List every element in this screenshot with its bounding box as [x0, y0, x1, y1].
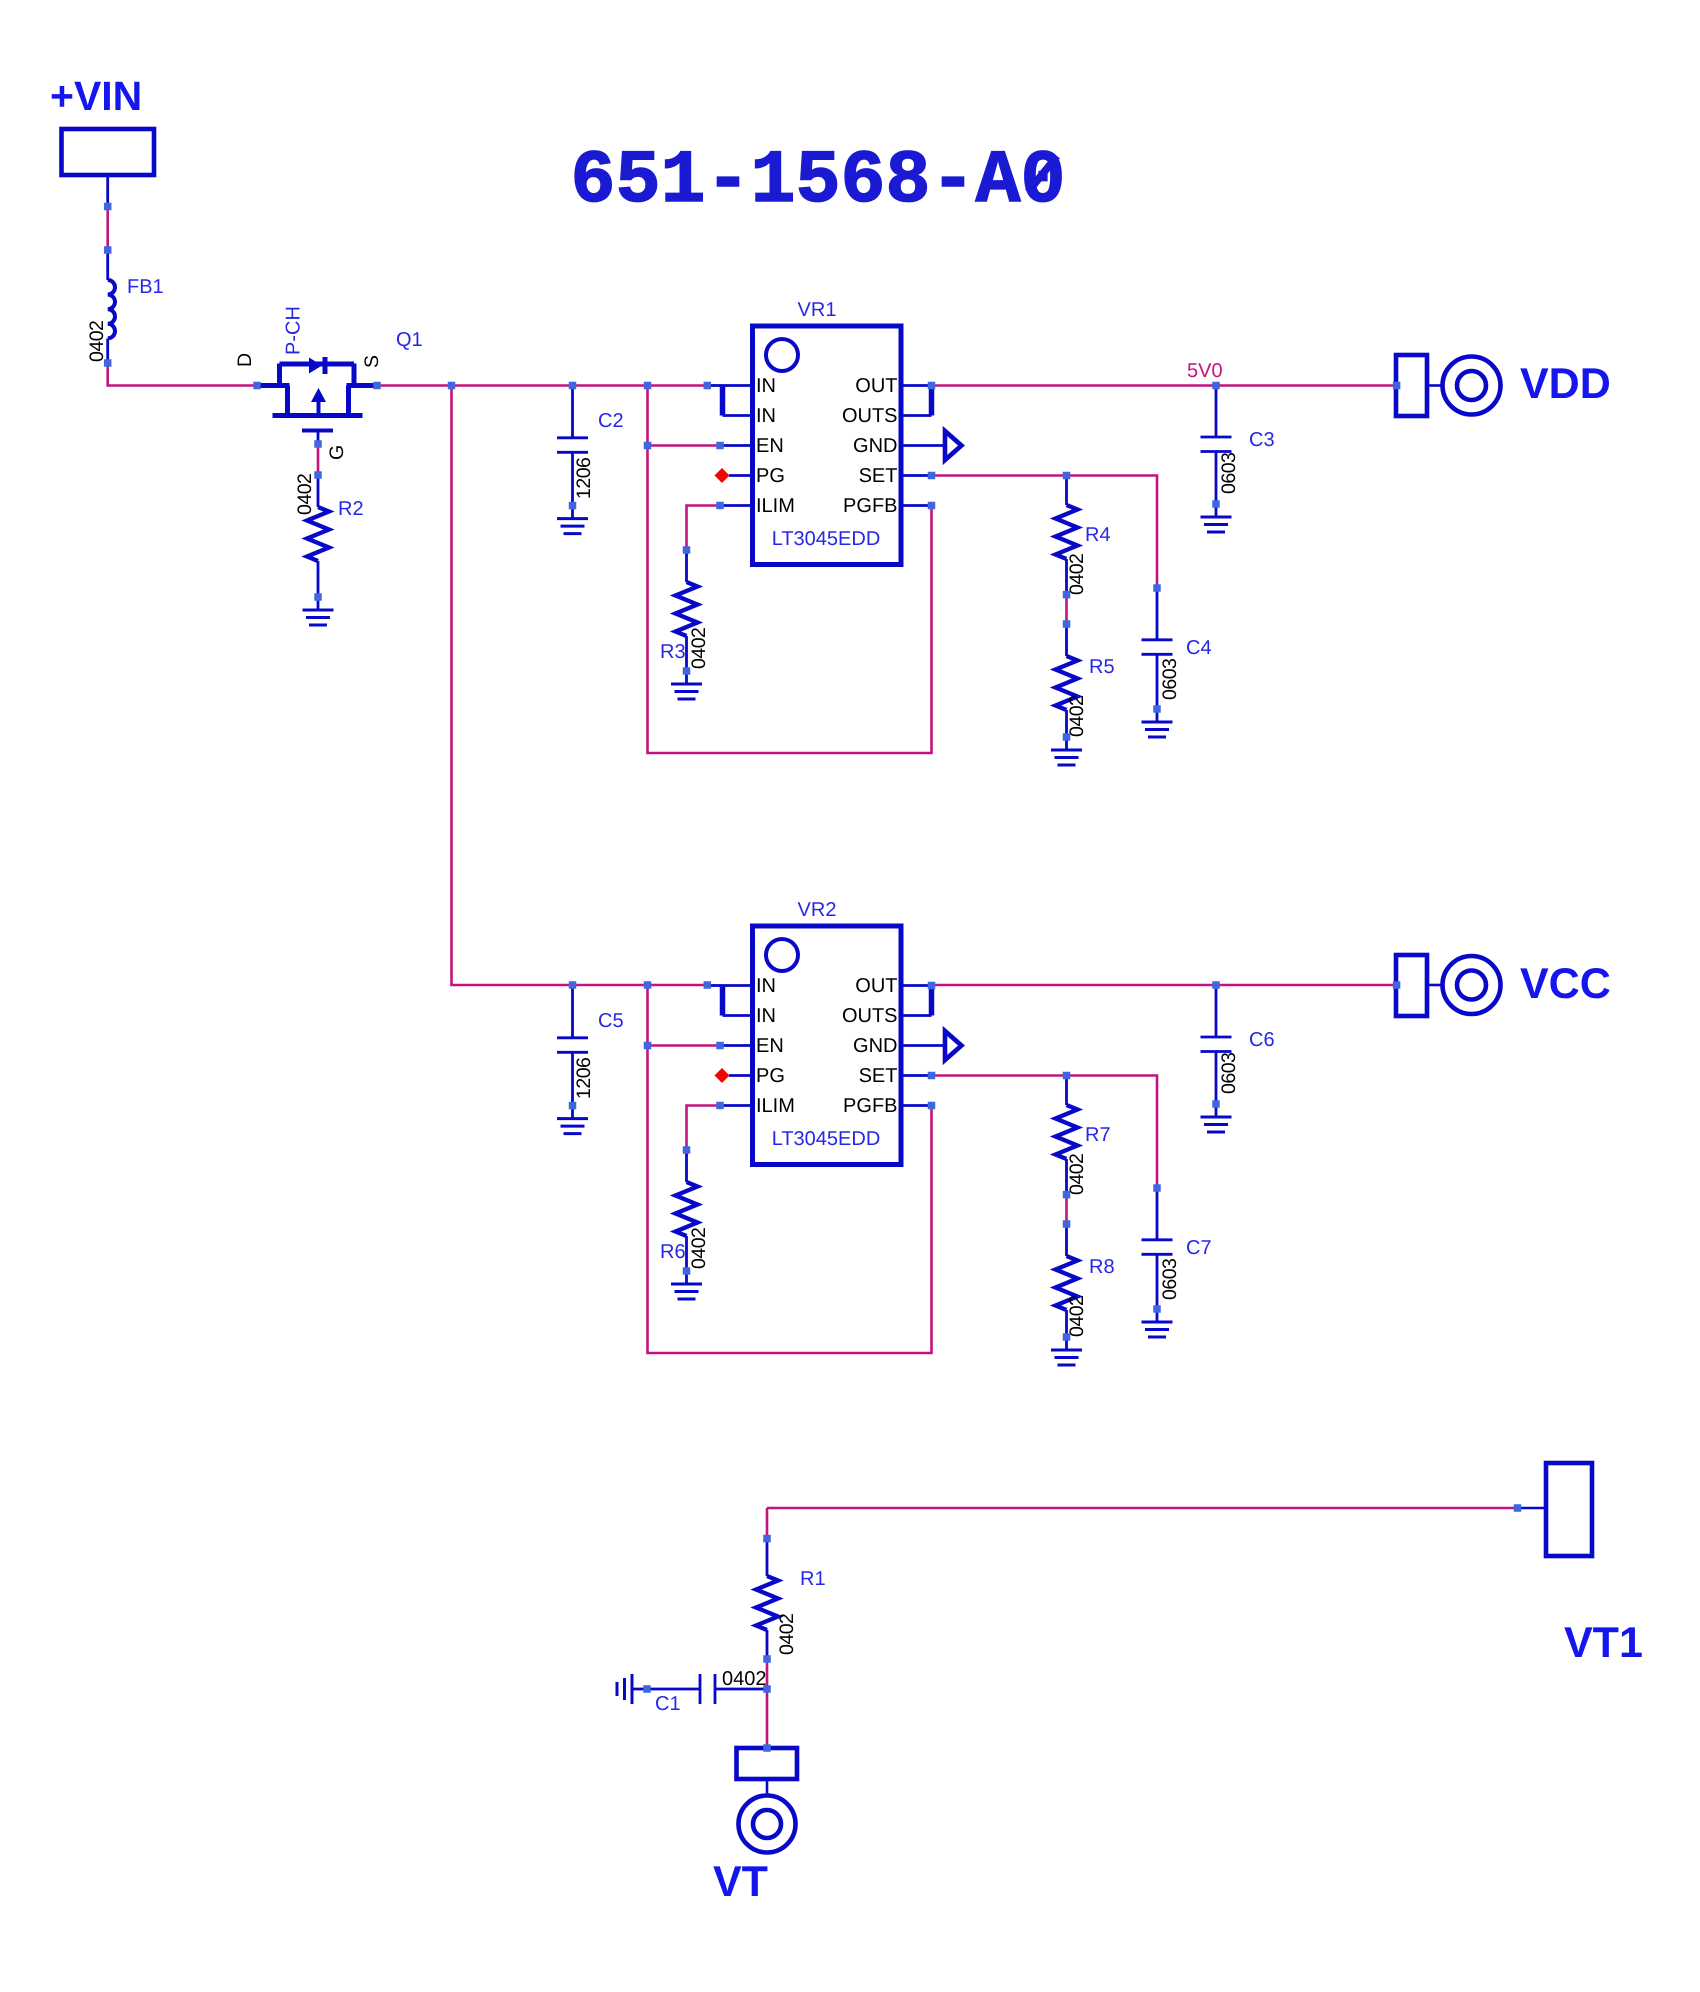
pin EN stub — [720, 1044, 753, 1047]
svg-text:0402: 0402 — [688, 1228, 710, 1269]
wire 5V0 OUT — [932, 384, 1397, 387]
resistor R3 — [685, 550, 688, 582]
junction — [1514, 1504, 1522, 1512]
ground (R6) — [685, 1271, 688, 1284]
port VCC — [1396, 955, 1427, 1016]
junction — [569, 981, 577, 989]
svg-text:C4: C4 — [1186, 637, 1212, 659]
ground (C2) — [571, 506, 574, 519]
transistor Q1 P-CH MOSFET — [259, 383, 290, 388]
wire VT1 rail — [767, 1507, 1518, 1510]
svg-text:0402: 0402 — [294, 474, 316, 515]
pin IN bracket — [707, 984, 722, 987]
svg-text:0603: 0603 — [1218, 453, 1240, 494]
wire G to R2 — [317, 444, 320, 475]
junction — [448, 382, 456, 390]
ground (R5) — [1065, 737, 1068, 750]
svg-text:R5: R5 — [1089, 656, 1115, 678]
svg-text:0603: 0603 — [1159, 659, 1181, 700]
port VT — [737, 1748, 798, 1779]
wire C1 node to VT port — [766, 1689, 769, 1748]
wire SET VR2 — [932, 1076, 1158, 1189]
junction — [1153, 1184, 1161, 1192]
svg-text:C2: C2 — [598, 410, 624, 432]
svg-text:PGFB: PGFB — [843, 495, 897, 517]
junction — [1063, 472, 1071, 480]
svg-text:PG: PG — [756, 465, 785, 487]
svg-text:0402: 0402 — [1066, 1296, 1088, 1337]
ground (C7) — [1156, 1309, 1159, 1322]
svg-text:0402: 0402 — [1066, 1154, 1088, 1195]
junction — [763, 1744, 771, 1752]
junction — [1063, 733, 1071, 741]
capacitor C2 — [571, 386, 574, 438]
svg-text:C5: C5 — [598, 1010, 624, 1032]
junction — [569, 1102, 577, 1110]
svg-text:OUTS: OUTS — [842, 1005, 898, 1027]
junction — [1063, 1333, 1071, 1341]
resistor R5 — [1065, 624, 1068, 656]
junction — [716, 1042, 724, 1050]
port +VIN — [62, 129, 155, 175]
junction — [1212, 500, 1220, 508]
junction — [1393, 382, 1401, 390]
junction — [1212, 981, 1220, 989]
junction — [1212, 382, 1220, 390]
port VT1 — [1546, 1463, 1592, 1556]
svg-text:Q1: Q1 — [396, 329, 423, 351]
svg-text:ILIM: ILIM — [756, 495, 795, 517]
junction — [314, 440, 322, 448]
svg-text:LT3045EDD: LT3045EDD — [772, 1128, 881, 1150]
svg-text:IN: IN — [756, 975, 776, 997]
junction — [683, 546, 691, 554]
ground (C6) — [1215, 1104, 1218, 1117]
svg-text:IN: IN — [756, 405, 776, 427]
ground (R2) — [317, 597, 320, 610]
svg-text:R3: R3 — [660, 641, 686, 663]
svg-text:EN: EN — [756, 1035, 784, 1057]
svg-text:OUT: OUT — [855, 375, 897, 397]
svg-text:0402: 0402 — [1066, 696, 1088, 737]
junction — [1212, 1100, 1220, 1108]
pin GND stub — [904, 1044, 946, 1047]
wire stub to VT1 port — [1518, 1507, 1547, 1510]
svg-text:SET: SET — [859, 1065, 898, 1087]
pin PGFB stub — [904, 1104, 932, 1107]
junction — [1393, 981, 1401, 989]
junction — [1063, 1220, 1071, 1228]
svg-text:C3: C3 — [1249, 429, 1275, 451]
junction — [763, 1685, 771, 1693]
capacitor C3 — [1215, 386, 1218, 438]
capacitor C4 — [1156, 588, 1159, 640]
junction — [716, 502, 724, 510]
wire R7 to R8 — [1065, 1195, 1068, 1224]
op-amp regulator VR2 LT3045EDD box — [753, 926, 902, 1165]
svg-text:R7: R7 — [1085, 1124, 1111, 1146]
wire R1 to C1 node — [766, 1659, 769, 1689]
pin OUT bracket — [904, 984, 932, 987]
junction — [1063, 620, 1071, 628]
power symbol GND arrow — [945, 1031, 962, 1060]
wire SET — [932, 476, 1158, 589]
pin SET stub — [904, 1074, 932, 1077]
junction — [1153, 705, 1161, 713]
resistor R2 — [317, 475, 320, 507]
resistor R6 — [685, 1150, 688, 1182]
wire EN VR2 — [648, 1044, 721, 1047]
wire EN PGFB loop — [648, 386, 932, 754]
svg-text:P-CH: P-CH — [283, 306, 305, 355]
svg-text:ILIM: ILIM — [756, 1095, 795, 1117]
svg-text:R8: R8 — [1089, 1256, 1115, 1278]
svg-text:GND: GND — [853, 1035, 897, 1057]
pin IN bracket — [707, 384, 722, 387]
svg-text:VCC: VCC — [1520, 960, 1611, 1008]
junction — [683, 1146, 691, 1154]
junction — [763, 1655, 771, 1663]
svg-text:PGFB: PGFB — [843, 1095, 897, 1117]
pin ILIM stub — [720, 1104, 753, 1107]
wire +VIN port to FB1 — [106, 175, 109, 207]
junction — [1153, 584, 1161, 592]
junction — [373, 382, 381, 390]
capacitor C5 — [571, 985, 574, 1038]
svg-text:0402: 0402 — [722, 1668, 767, 1690]
svg-text:VT1: VT1 — [1564, 1619, 1643, 1667]
svg-text:R2: R2 — [338, 498, 364, 520]
svg-text:R1: R1 — [800, 1568, 826, 1590]
junction — [104, 203, 112, 211]
junction — [683, 667, 691, 675]
junction — [644, 981, 652, 989]
ground (R8) — [1065, 1337, 1068, 1350]
op-amp regulator VR1 LT3045EDD box — [753, 326, 902, 565]
junction — [569, 382, 577, 390]
svg-text:FB1: FB1 — [127, 276, 164, 298]
resistor R7 — [1065, 1076, 1068, 1106]
junction — [704, 981, 712, 989]
svg-text:LT3045EDD: LT3045EDD — [772, 528, 881, 550]
ferrite bead FB1 — [106, 250, 109, 280]
ground (C3) — [1215, 504, 1218, 517]
junction — [104, 359, 112, 367]
junction — [763, 1535, 771, 1543]
junction — [314, 593, 322, 601]
junction — [643, 1685, 651, 1693]
ground (C4) — [1156, 709, 1159, 722]
pin PG stub — [729, 474, 753, 477]
junction — [1063, 1191, 1071, 1199]
svg-text:EN: EN — [756, 435, 784, 457]
svg-text:G: G — [326, 445, 348, 460]
junction — [928, 382, 936, 390]
wire EN — [648, 444, 721, 447]
svg-text:0603: 0603 — [1159, 1259, 1181, 1300]
ground (C1) — [631, 1674, 634, 1704]
ground (C5) — [571, 1106, 574, 1119]
junction — [704, 382, 712, 390]
svg-text:0402: 0402 — [688, 628, 710, 669]
svg-text:VDD: VDD — [1520, 360, 1611, 408]
pin ILIM stub — [720, 504, 753, 507]
wire rail to R1 — [766, 1508, 769, 1539]
svg-text:PG: PG — [756, 1065, 785, 1087]
pin GND stub — [904, 444, 946, 447]
junction — [928, 982, 936, 990]
pin SET stub — [904, 474, 932, 477]
svg-text:S: S — [361, 355, 383, 368]
no-connect flag PG — [715, 468, 730, 483]
wire R4 to R5 — [1065, 595, 1068, 624]
svg-text:D: D — [234, 353, 256, 367]
junction — [928, 1102, 936, 1110]
resistor R8 — [1065, 1224, 1068, 1256]
svg-text:0603: 0603 — [1218, 1053, 1240, 1094]
resistor R4 — [1065, 476, 1068, 506]
svg-text:C6: C6 — [1249, 1029, 1275, 1051]
svg-text:1206: 1206 — [573, 458, 595, 499]
wire ILIM to R3 — [687, 506, 721, 551]
wire EN PGFB loop VR2 — [648, 985, 932, 1353]
svg-text:0402: 0402 — [776, 1614, 798, 1655]
wire rail down to VR2 — [452, 386, 708, 986]
junction — [683, 1267, 691, 1275]
pin PG stub — [729, 1074, 753, 1077]
junction — [253, 382, 261, 390]
svg-text:1206: 1206 — [573, 1058, 595, 1099]
svg-text:C1: C1 — [655, 1693, 681, 1715]
junction — [1063, 1072, 1071, 1080]
svg-text:+VIN: +VIN — [50, 73, 142, 119]
svg-text:IN: IN — [756, 375, 776, 397]
pin EN stub — [720, 444, 753, 447]
power symbol GND arrow — [945, 431, 962, 460]
junction — [928, 472, 936, 480]
pin PGFB stub — [904, 504, 932, 507]
svg-text:R6: R6 — [660, 1241, 686, 1263]
junction — [314, 471, 322, 479]
junction — [928, 502, 936, 510]
wire FB1 to Q1 D — [108, 363, 257, 386]
svg-text:R4: R4 — [1085, 524, 1111, 546]
junction — [1153, 1305, 1161, 1313]
svg-text:5V0: 5V0 — [1187, 360, 1223, 382]
svg-text:SET: SET — [859, 465, 898, 487]
svg-text:VR2: VR2 — [798, 899, 837, 921]
svg-text:0402: 0402 — [1066, 554, 1088, 595]
svg-text:OUT: OUT — [855, 975, 897, 997]
junction — [1063, 591, 1071, 599]
junction — [928, 1072, 936, 1080]
junction — [716, 1102, 724, 1110]
svg-text:GND: GND — [853, 435, 897, 457]
capacitor C1 — [715, 1688, 767, 1691]
ground (R3) — [685, 671, 688, 684]
svg-text:0402: 0402 — [86, 321, 108, 362]
junction — [716, 442, 724, 450]
resistor R1 — [766, 1539, 769, 1577]
wire VCC OUT — [932, 984, 1397, 987]
capacitor C7 — [1156, 1188, 1159, 1240]
svg-text:IN: IN — [756, 1005, 776, 1027]
junction — [644, 1042, 652, 1050]
svg-text:651-1568-A0: 651-1568-A0 — [570, 139, 1065, 224]
junction — [644, 382, 652, 390]
junction — [569, 502, 577, 510]
junction — [104, 246, 112, 254]
svg-text:OUTS: OUTS — [842, 405, 898, 427]
wire Q1 S to VR1 IN — [377, 384, 707, 387]
svg-text:VR1: VR1 — [798, 299, 837, 321]
capacitor C6 — [1215, 985, 1218, 1037]
port VDD — [1396, 355, 1427, 416]
junction — [644, 442, 652, 450]
svg-text:C7: C7 — [1186, 1237, 1212, 1259]
wire ILIM to R6 — [687, 1106, 721, 1151]
no-connect flag PG — [715, 1068, 730, 1083]
svg-text:VT: VT — [713, 1858, 768, 1906]
pin OUT bracket — [904, 384, 932, 387]
